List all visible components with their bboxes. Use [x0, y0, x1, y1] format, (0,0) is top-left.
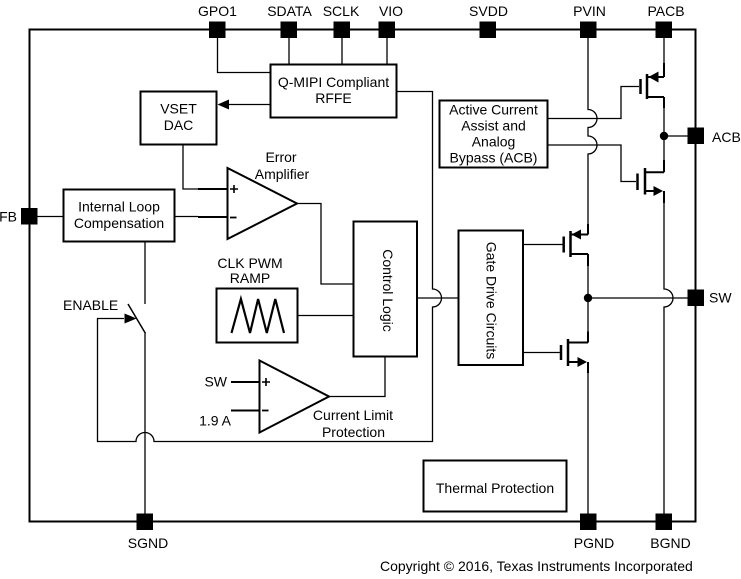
pin FB: [0, 208, 38, 225]
svg-text:PVIN: PVIN: [573, 3, 606, 19]
sawtooth waveform inside RAMP block: [232, 299, 285, 333]
wire bypass lower PMOS drain down to BGND with hop over SW line: [664, 203, 673, 514]
svg-text:SDATA: SDATA: [267, 3, 312, 19]
wire FB pin to Internal Loop Compensation: [38, 216, 64, 218]
svg-text:RAMP: RAMP: [230, 270, 270, 286]
wire RFFE enable routing: right side down, across bottom with hop, up to switch arrow: [98, 92, 442, 442]
svg-text:VSET: VSET: [160, 101, 197, 117]
wire ACB node down to bypass lower PMOS source: [663, 136, 665, 160]
block Thermal Protection: [424, 461, 567, 512]
svg-text:Compensation: Compensation: [74, 215, 164, 231]
wire SCLK to RFFE: [341, 38, 343, 65]
wire VSET DAC to error amplifier plus input: [183, 145, 198, 190]
svg-text:BGND: BGND: [650, 535, 690, 551]
svg-text:Analog: Analog: [472, 134, 516, 150]
block Control Logic: [354, 222, 418, 357]
svg-text:FB: FB: [0, 209, 17, 225]
pin SW: [688, 290, 733, 307]
svg-text:Amplifier: Amplifier: [255, 166, 310, 182]
switch blade (open): [128, 304, 146, 334]
svg-text:ENABLE: ENABLE: [63, 297, 118, 313]
svg-text:SW: SW: [709, 290, 732, 306]
pin ACB: [688, 128, 741, 146]
wire ACB block output 1 to bypass upper FET gate: [548, 87, 640, 119]
wire error amplifier minus input stub: [198, 216, 228, 218]
svg-text:DAC: DAC: [164, 117, 194, 133]
wire PACB to bypass upper PMOS source: [663, 38, 665, 64]
transistor bypass lower PMOS: [638, 160, 665, 203]
svg-text:RFFE: RFFE: [315, 90, 352, 106]
svg-text:Error: Error: [265, 149, 296, 165]
svg-text:GPO1: GPO1: [198, 3, 237, 19]
pin SVDD: [469, 3, 508, 38]
wire comparator plus input stub: [231, 381, 259, 383]
wire ACB block output 2 to bypass lower FET gate: [548, 145, 637, 182]
svg-text:Current Limit: Current Limit: [313, 407, 393, 423]
svg-text:ACB: ACB: [712, 129, 741, 145]
svg-text:PGND: PGND: [574, 535, 614, 551]
svg-text:Thermal Protection: Thermal Protection: [436, 480, 554, 496]
arrowhead enable control to switch: [125, 314, 137, 324]
wire GPO1 to RFFE: [218, 38, 271, 73]
pin BGND: [650, 514, 690, 552]
wire VIO to RFFE: [386, 38, 388, 65]
svg-text:SGND: SGND: [128, 535, 168, 551]
wire SW node up to low-side FET source: [587, 298, 589, 332]
svg-text:Internal Loop: Internal Loop: [78, 199, 160, 215]
wire comparator output to Control Logic bottom: [329, 357, 385, 397]
wire high-side FET drain down to SW node: [587, 266, 589, 298]
svg-text:PACB: PACB: [647, 3, 684, 19]
svg-text:Bypass (ACB): Bypass (ACB): [450, 150, 538, 166]
wire bypass upper PMOS drain to ACB node: [663, 108, 665, 136]
junction node ACB: [660, 132, 668, 140]
op-amp error amplifier triangle: [228, 149, 310, 239]
svg-text:Assist and: Assist and: [461, 118, 526, 134]
svg-text:SW: SW: [204, 374, 227, 390]
svg-text:Protection: Protection: [322, 424, 385, 440]
pin GPO1: [198, 3, 237, 38]
wire switch lower contact to SGND pin: [144, 334, 146, 514]
block U1 Q-MIPI Compliant RFFE: [271, 65, 397, 118]
block CLK PWM RAMP oscillator: [217, 255, 298, 343]
wire PVIN down to high-side FET with hops over ACB gate lines: [588, 38, 597, 225]
wire ACB node to ACB pin: [664, 135, 688, 137]
wire error amplifier output to Control Logic: [297, 204, 354, 285]
pin VIO: [379, 3, 404, 38]
wire ILC bottom to switch upper contact: [144, 242, 146, 305]
wire Gate Drive to low-side FET gate: [523, 352, 560, 354]
wire Control Logic to Gate Drive Circuits with hop: [417, 297, 459, 299]
chip outer boundary: [30, 30, 696, 522]
wire RFFE to VSET DAC with arrow: [218, 100, 271, 110]
pin PACB: [647, 3, 684, 38]
svg-text:Control Logic: Control Logic: [380, 249, 396, 332]
block Gate Drive Circuits: [459, 231, 524, 366]
block Internal Loop Compensation: [64, 190, 175, 242]
pin PVIN: [573, 3, 606, 38]
svg-text:CLK PWM: CLK PWM: [217, 255, 282, 271]
svg-text:Copyright © 2016, Texas Instru: Copyright © 2016, Texas Instruments Inco…: [380, 558, 693, 574]
junction node SW: [584, 294, 592, 302]
wire low-side FET drain down to PGND: [587, 373, 589, 514]
transistor bypass upper PMOS: [641, 63, 665, 108]
wire RAMP to Control Logic: [298, 315, 354, 317]
svg-text:Gate Drive Circuits: Gate Drive Circuits: [484, 242, 500, 359]
wire SDATA to RFFE: [288, 38, 290, 65]
pin PGND: [574, 514, 614, 552]
wire Internal Loop Compensation to error amplifier minus input: [175, 216, 198, 218]
svg-text:SCLK: SCLK: [323, 3, 360, 19]
block Active Current Assist and Analog Bypass (ACB): [440, 101, 548, 168]
transistor high-side power PMOS: [564, 224, 588, 266]
transistor low-side power NMOS: [561, 332, 588, 374]
wire error amplifier plus input stub: [198, 188, 228, 190]
svg-text:VIO: VIO: [379, 3, 403, 19]
block VSET DAC: [141, 92, 217, 145]
comparator current limit protection triangle: [260, 361, 394, 441]
wire comparator minus input stub: [231, 410, 259, 412]
pin SGND: [128, 514, 168, 552]
svg-text:1.9 A: 1.9 A: [199, 413, 232, 429]
pin SDATA: [267, 3, 312, 38]
svg-text:Active Current: Active Current: [449, 102, 538, 118]
wire SW node to SW pin: [588, 297, 688, 299]
svg-text:SVDD: SVDD: [469, 3, 508, 19]
pin SCLK: [323, 3, 360, 38]
wire Gate Drive to high-side FET gate: [523, 244, 563, 246]
svg-text:Q-MIPI Compliant: Q-MIPI Compliant: [278, 74, 389, 90]
